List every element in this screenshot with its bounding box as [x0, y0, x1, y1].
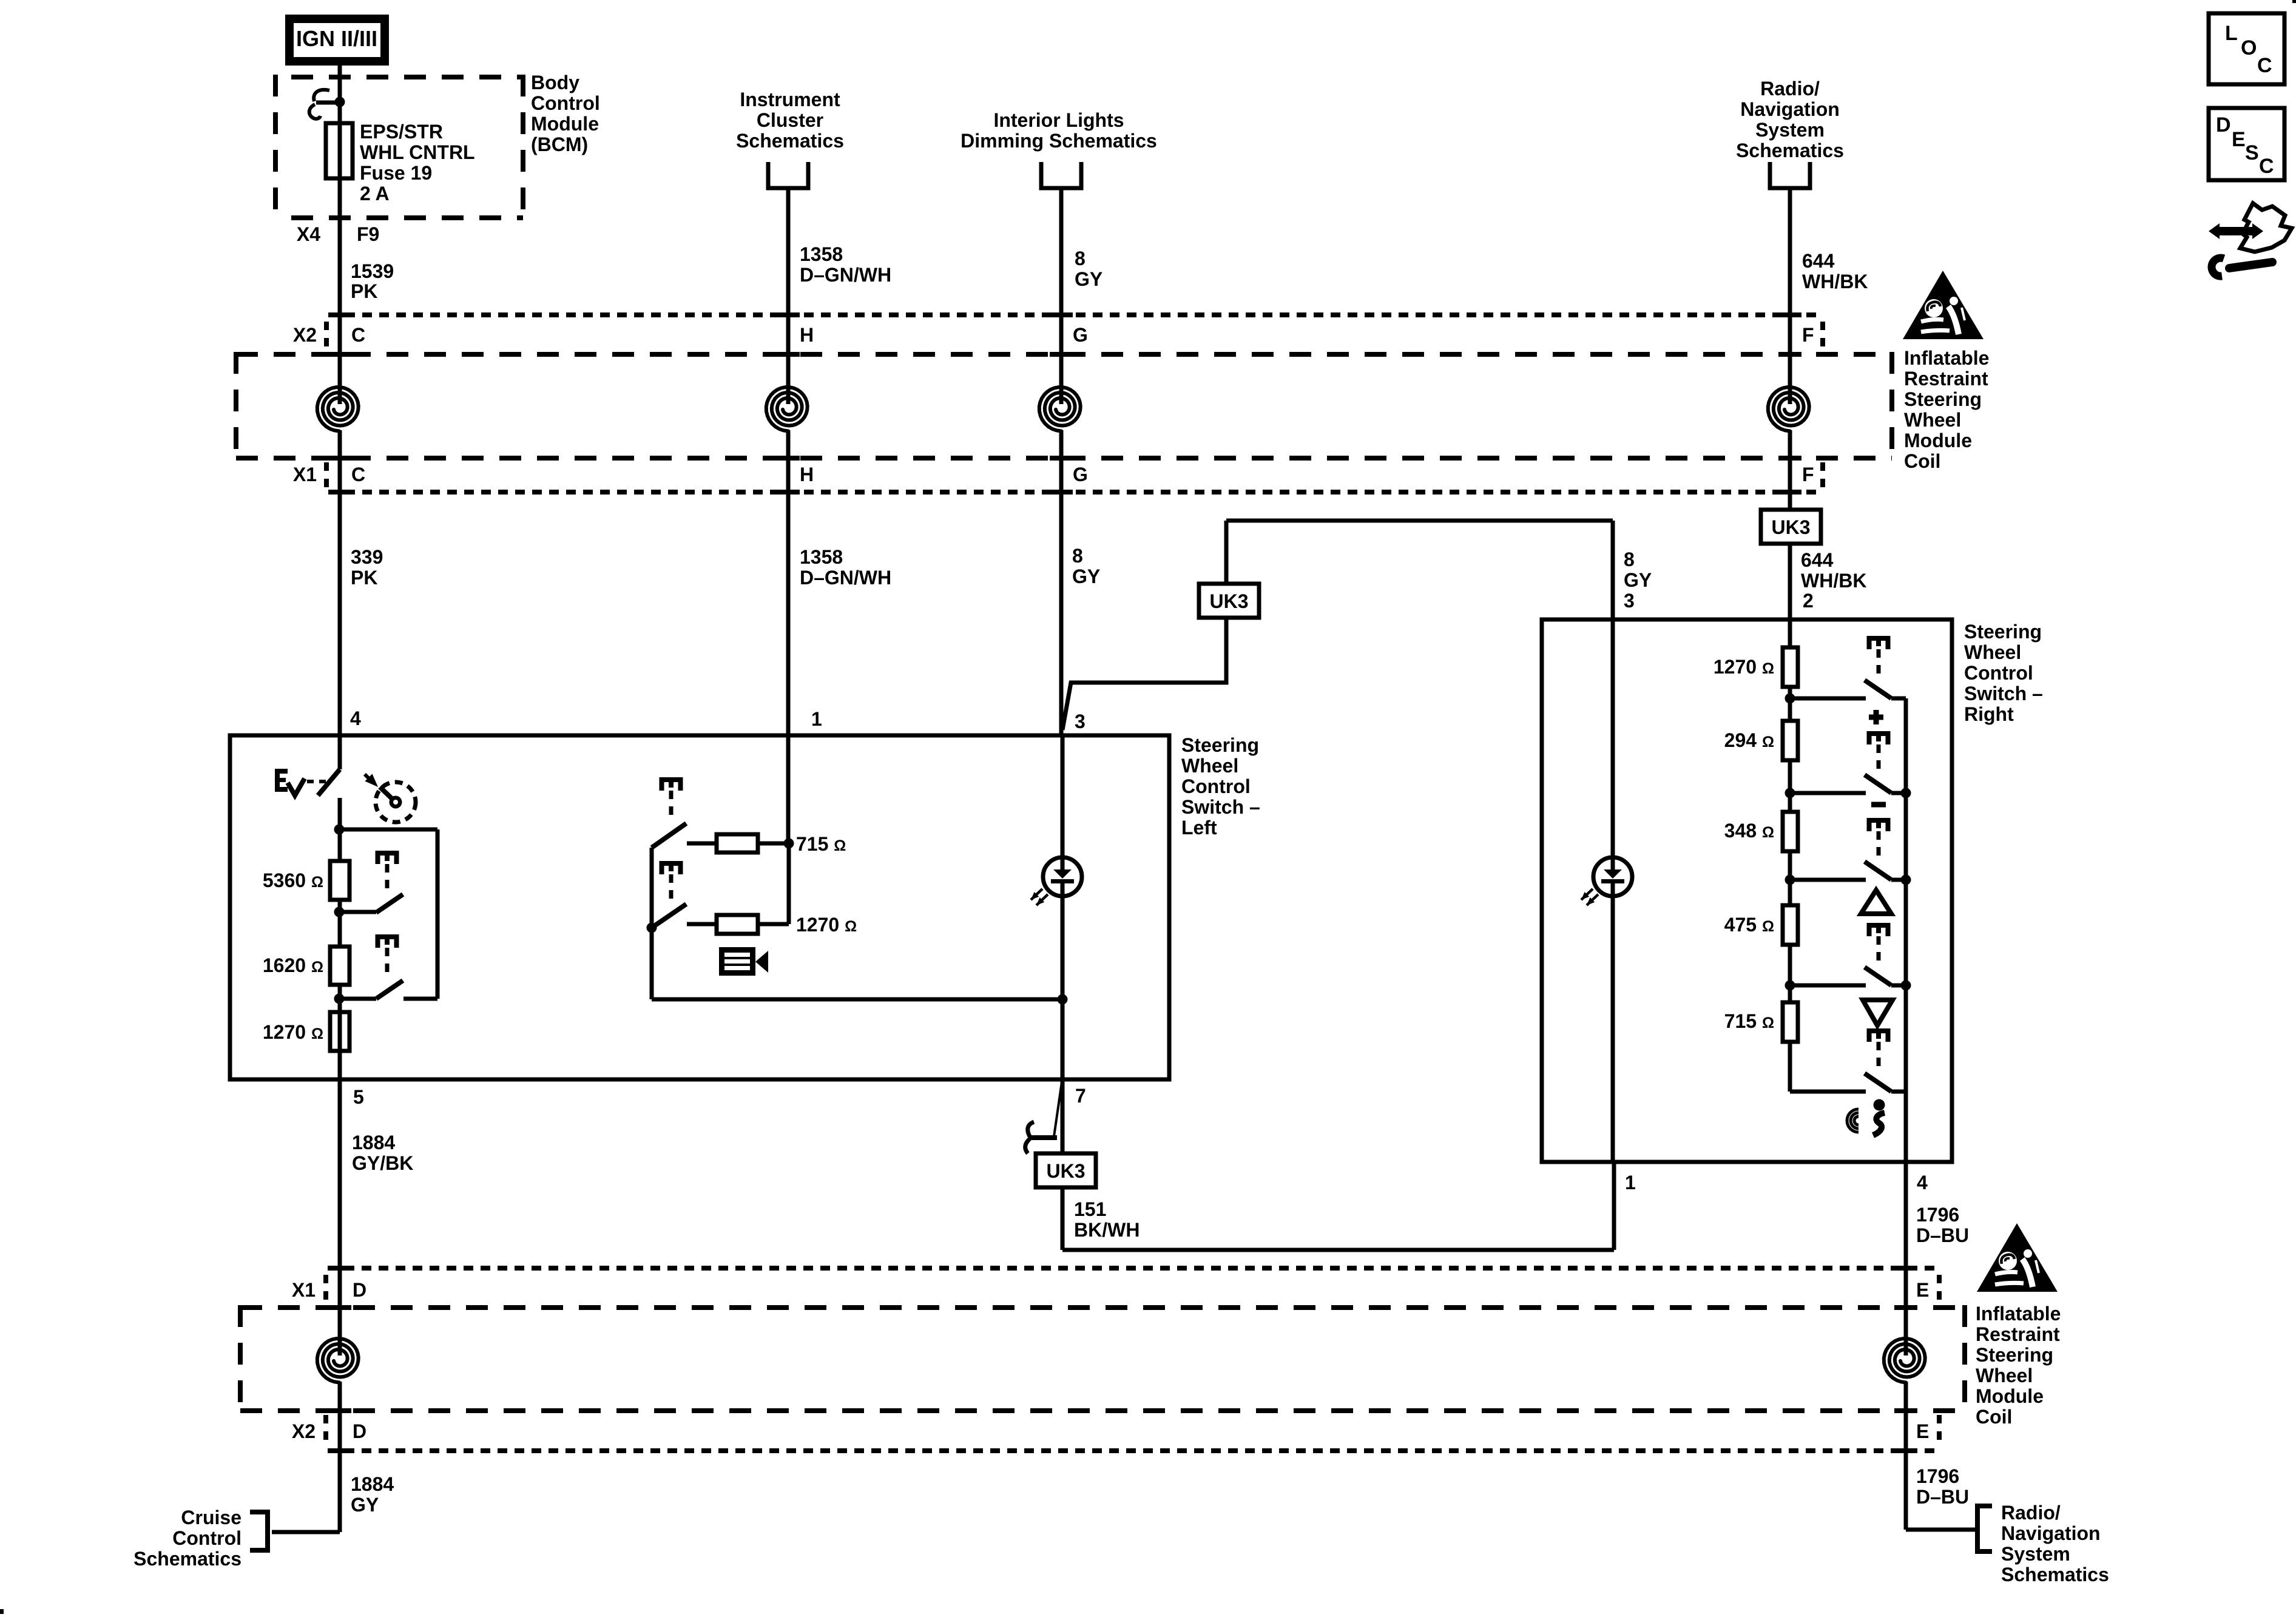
svg-text:Control: Control: [1181, 775, 1251, 797]
svg-text:8: 8: [1624, 549, 1635, 570]
svg-text:EPS/STR: EPS/STR: [360, 121, 443, 143]
svg-text:Wheel: Wheel: [1904, 409, 1961, 431]
svg-text:Fuse 19: Fuse 19: [360, 162, 432, 184]
svg-text:Module: Module: [531, 113, 599, 135]
svg-text:Restraint: Restraint: [1976, 1323, 2060, 1345]
svg-text:GY/BK: GY/BK: [352, 1152, 413, 1174]
svg-text:Cruise: Cruise: [181, 1507, 241, 1528]
svg-text:F: F: [1802, 464, 1814, 485]
svg-text:1358: 1358: [800, 546, 843, 568]
svg-text:X2: X2: [292, 1420, 316, 1442]
svg-text:L: L: [2225, 22, 2238, 45]
svg-text:H: H: [800, 324, 814, 346]
svg-text:X4: X4: [297, 223, 320, 245]
svg-text:Wheel: Wheel: [1976, 1365, 2033, 1386]
svg-text:Schematics: Schematics: [133, 1548, 241, 1570]
svg-text:Schematics: Schematics: [1736, 140, 1844, 161]
svg-text:Module: Module: [1976, 1385, 2044, 1407]
svg-text:2: 2: [1803, 590, 1814, 612]
svg-text:Steering: Steering: [1181, 734, 1259, 756]
svg-text:E: E: [2232, 128, 2246, 151]
svg-text:Interior Lights: Interior Lights: [993, 109, 1124, 131]
svg-text:Restraint: Restraint: [1904, 368, 1988, 390]
svg-text:4: 4: [1917, 1172, 1928, 1193]
svg-text:7: 7: [1075, 1085, 1086, 1107]
svg-text:Schematics: Schematics: [736, 130, 844, 152]
svg-text:339: 339: [351, 546, 383, 568]
svg-text:644: 644: [1802, 250, 1835, 272]
svg-text:Navigation: Navigation: [2001, 1522, 2101, 1544]
svg-text:Control: Control: [1964, 662, 2033, 684]
svg-text:Radio/: Radio/: [1760, 78, 1820, 100]
svg-text:4: 4: [350, 707, 361, 729]
svg-text:1796: 1796: [1916, 1204, 1959, 1226]
svg-text:Steering: Steering: [1904, 388, 1982, 410]
svg-text:WH/BK: WH/BK: [1801, 570, 1866, 592]
svg-text:1: 1: [1625, 1172, 1636, 1193]
svg-text:GY: GY: [1072, 565, 1100, 587]
svg-text:System: System: [1755, 119, 1825, 141]
svg-text:151: 151: [1074, 1198, 1106, 1220]
svg-text:Body: Body: [531, 72, 579, 93]
svg-text:GY: GY: [1624, 569, 1652, 591]
svg-text:Right: Right: [1964, 703, 2014, 725]
svg-text:Radio/: Radio/: [2001, 1502, 2061, 1524]
svg-text:1: 1: [811, 708, 822, 730]
svg-text:GY: GY: [351, 1494, 379, 1516]
svg-text:PK: PK: [351, 567, 377, 589]
svg-text:X1: X1: [292, 1279, 316, 1301]
svg-text:(BCM): (BCM): [531, 133, 588, 155]
svg-text:F: F: [1802, 324, 1814, 346]
svg-text:644: 644: [1801, 549, 1834, 571]
svg-text:Wheel: Wheel: [1964, 641, 2021, 663]
svg-text:Steering: Steering: [1964, 621, 2042, 643]
svg-text:Wheel: Wheel: [1181, 755, 1238, 777]
svg-text:Schematics: Schematics: [2001, 1564, 2109, 1585]
svg-text:1796: 1796: [1916, 1465, 1959, 1487]
svg-text:D: D: [2216, 113, 2231, 137]
svg-text:8: 8: [1072, 545, 1083, 567]
svg-text:Navigation: Navigation: [1740, 98, 1840, 120]
svg-text:D: D: [353, 1279, 366, 1301]
svg-text:Control: Control: [172, 1527, 241, 1549]
svg-text:E: E: [1916, 1279, 1929, 1301]
svg-text:Coil: Coil: [1904, 450, 1940, 472]
svg-text:C: C: [2257, 54, 2272, 77]
svg-text:Inflatable: Inflatable: [1904, 347, 1989, 369]
svg-text:WH/BK: WH/BK: [1802, 271, 1868, 292]
svg-text:X1: X1: [293, 464, 317, 485]
svg-text:8: 8: [1075, 248, 1086, 269]
svg-text:WHL CNTRL: WHL CNTRL: [360, 141, 475, 163]
svg-text:O: O: [2241, 36, 2257, 59]
svg-text:D: D: [353, 1420, 366, 1442]
svg-text:3: 3: [1624, 590, 1635, 612]
svg-text:X2: X2: [293, 324, 317, 346]
svg-text:E: E: [1916, 1420, 1929, 1442]
svg-text:C: C: [351, 464, 365, 485]
svg-text:Switch –: Switch –: [1964, 683, 2043, 704]
svg-text:Steering: Steering: [1976, 1344, 2053, 1366]
svg-text:2 A: 2 A: [360, 183, 390, 204]
svg-text:Control: Control: [531, 92, 600, 114]
svg-text:D–GN/WH: D–GN/WH: [800, 567, 891, 589]
svg-text:Instrument: Instrument: [740, 89, 840, 110]
svg-text:1539: 1539: [351, 260, 394, 282]
svg-text:GY: GY: [1075, 268, 1102, 290]
svg-text:BK/WH: BK/WH: [1074, 1219, 1140, 1241]
svg-text:1884: 1884: [352, 1132, 395, 1153]
svg-text:C: C: [351, 324, 365, 346]
svg-text:1358: 1358: [800, 243, 843, 265]
svg-text:H: H: [800, 464, 814, 485]
svg-text:UK3: UK3: [1046, 1160, 1085, 1182]
svg-text:UK3: UK3: [1209, 590, 1248, 612]
svg-text:5: 5: [353, 1086, 364, 1108]
svg-text:System: System: [2001, 1543, 2070, 1565]
svg-text:F9: F9: [357, 223, 379, 245]
svg-text:Left: Left: [1181, 817, 1217, 839]
svg-text:1884: 1884: [351, 1473, 394, 1495]
svg-text:Cluster: Cluster: [757, 109, 823, 131]
svg-text:C: C: [2259, 155, 2274, 178]
svg-text:IGN II/III: IGN II/III: [296, 26, 377, 51]
svg-text:Module: Module: [1904, 430, 1972, 451]
svg-text:D–GN/WH: D–GN/WH: [800, 264, 891, 286]
svg-text:S: S: [2245, 141, 2259, 164]
svg-text:UK3: UK3: [1771, 516, 1810, 538]
svg-text:Dimming Schematics: Dimming Schematics: [961, 130, 1157, 152]
svg-text:Inflatable: Inflatable: [1976, 1303, 2061, 1325]
svg-text:G: G: [1073, 324, 1088, 346]
svg-text:G: G: [1073, 464, 1088, 485]
svg-text:Coil: Coil: [1976, 1406, 2012, 1428]
svg-text:Switch –: Switch –: [1181, 796, 1260, 818]
svg-text:D–BU: D–BU: [1916, 1224, 1969, 1246]
svg-text:3: 3: [1075, 711, 1086, 732]
svg-text:PK: PK: [351, 280, 377, 302]
svg-text:D–BU: D–BU: [1916, 1486, 1969, 1508]
